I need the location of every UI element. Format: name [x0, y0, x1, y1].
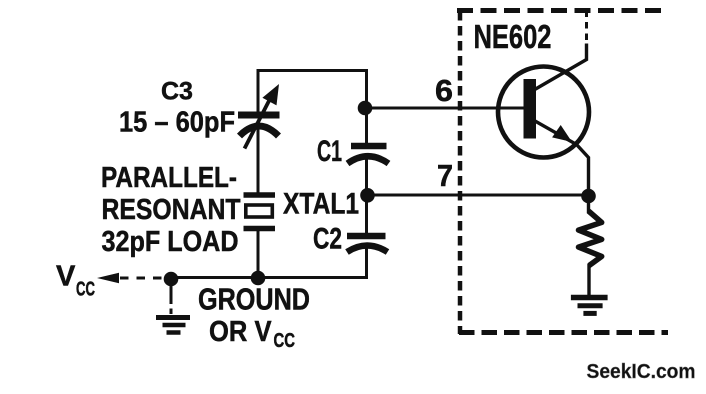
- svg-text:XTAL1: XTAL1: [283, 188, 359, 221]
- svg-text:V: V: [56, 261, 76, 293]
- svg-text:C2: C2: [313, 223, 342, 256]
- svg-text:CC: CC: [76, 279, 95, 301]
- svg-text:15 – 60pF: 15 – 60pF: [119, 107, 235, 139]
- svg-text:6: 6: [435, 74, 453, 108]
- svg-text:NE602: NE602: [474, 19, 552, 56]
- svg-text:CC: CC: [274, 330, 296, 352]
- svg-text:PARALLEL-: PARALLEL-: [101, 162, 237, 194]
- svg-text:C3: C3: [161, 78, 193, 106]
- svg-text:C1: C1: [317, 135, 342, 168]
- svg-text:7: 7: [437, 159, 453, 193]
- svg-text:GROUND: GROUND: [198, 282, 310, 317]
- svg-text:32pF LOAD: 32pF LOAD: [102, 226, 239, 258]
- svg-text:OR V: OR V: [209, 316, 272, 348]
- svg-text:RESONANT: RESONANT: [102, 194, 241, 226]
- svg-text:SeekIC.com: SeekIC.com: [587, 361, 696, 383]
